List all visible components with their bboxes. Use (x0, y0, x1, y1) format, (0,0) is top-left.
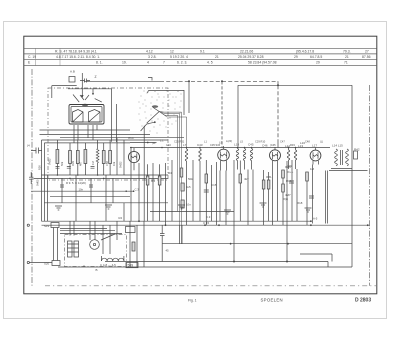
wires under coil box (40, 130, 185, 143)
wire vertical x=111.6 (111, 89, 113, 142)
boxed label 599 (126, 263, 138, 268)
wire y=202.8 (44, 202, 168, 204)
wire y=211.5 (150, 211, 234, 213)
svg-text:C.3: C.3 (206, 215, 211, 219)
svg-text:0M1: 0M1 (71, 160, 75, 166)
terminal at left rail y=262.5 (27, 261, 29, 263)
svg-text:R50: R50 (38, 165, 42, 170)
wire y=196.5 (50, 196, 130, 198)
svg-text:58 23.84 (94.57.08: 58 23.84 (94.57.08 (248, 61, 277, 65)
ground left 1 (55, 206, 62, 210)
svg-text:C43: C43 (197, 143, 203, 147)
left rail (41, 140, 43, 221)
svg-text:9.1: 9.1 (200, 49, 205, 53)
arched inductor L4-5 (102, 258, 124, 261)
svg-text:(C45: (C45 (270, 143, 276, 147)
capacitor C62 (60, 185, 64, 187)
svg-text:C45: C45 (248, 143, 254, 147)
svg-text:R33: R33 (290, 143, 295, 147)
svg-text:0M4: 0M4 (285, 165, 291, 169)
svg-text:29: 29 (316, 61, 320, 65)
svg-text:12: 12 (170, 49, 174, 53)
svg-text:1.1: 1.1 (160, 139, 164, 143)
svg-text:C 4-8 — 4-5: C 4-8 — 4-5 (100, 263, 116, 267)
coil box L1/L2 (shielded, double border) (69, 105, 104, 125)
svg-text:45: 45 (166, 249, 170, 253)
terminal I at top (148, 78, 152, 81)
wire: tuning stem with arrow (81, 73, 83, 97)
wire x=278 down to V3 (277, 81, 279, 140)
svg-text:64.7.8.5: 64.7.8.5 (310, 55, 322, 59)
capacitor C64 (160, 234, 165, 236)
wires into coil unit (60, 221, 122, 254)
short inner line y=254 (300, 254, 332, 262)
resistor R11 (282, 170, 285, 178)
svg-text:0M05: 0M05 (36, 179, 40, 186)
junction on AVC bus (188, 80, 190, 82)
switch arm S1 (73, 95, 102, 103)
bus y=225.2 (42, 224, 370, 226)
svg-text:7: 7 (163, 61, 165, 65)
wire: dashed AVC bus y=81.3 (84, 80, 160, 82)
svg-text:27: 27 (365, 49, 369, 53)
resistor R50 (56, 150, 59, 164)
capacitor C18 (309, 196, 314, 198)
frame aerial fan wires (147, 108, 159, 124)
IF transformer L14/L15 (335, 149, 338, 166)
bus y=221.2 (42, 220, 311, 222)
svg-text:L16: L16 (300, 141, 305, 145)
svg-text:L12: L12 (285, 144, 290, 148)
tube V3 (270, 150, 281, 161)
bus y=175 (42, 174, 169, 176)
grid line y=147.5 (130, 147, 330, 149)
svg-text:Z: Z (95, 75, 97, 79)
capacitor C17 (289, 181, 294, 183)
parts table line 3 (24, 58, 377, 60)
antenna input box (69, 77, 75, 83)
svg-text:(11: (11 (152, 141, 156, 145)
stubs for component row (57, 138, 124, 175)
coil L12 (287, 148, 290, 170)
svg-text:C48: C48 (305, 140, 310, 144)
vertical value labels left column (38, 158, 123, 170)
svg-text:21: 21 (215, 55, 219, 59)
svg-text:8. 1.: 8. 1. (96, 61, 103, 65)
svg-text:L7: L7 (183, 143, 187, 147)
wire from fan to C14 (130, 122, 157, 221)
resistor R13 (306, 172, 309, 181)
coil L9 (236, 148, 239, 170)
frame aerial wiper oval (152, 105, 158, 108)
dash-dot line far right (369, 85, 371, 286)
svg-text:29: 29 (294, 55, 298, 59)
wire to S20 (29, 262, 52, 264)
svg-text:19.: 19. (122, 61, 127, 65)
left edge capacitor (29, 172, 44, 184)
winding window L1 (73, 110, 84, 123)
svg-text:S20: S20 (44, 262, 50, 266)
small caps under resistors (56, 167, 95, 169)
dashed feed x=222 to V2 (221, 81, 223, 147)
svg-text:5 19 2 20. 4: 5 19 2 20. 4 (170, 55, 188, 59)
capacitor C52 (181, 183, 184, 191)
resistor R1 (69, 151, 72, 164)
svg-text:87.56: 87.56 (362, 55, 371, 59)
dash-dot boundary left (31, 69, 33, 286)
wire vertical x=116.5 (116, 104, 118, 142)
box right edge (351, 85, 353, 267)
svg-text:A.B: A.B (70, 70, 75, 74)
labels middle (151, 165, 315, 225)
svg-text:4.12: 4.12 (146, 49, 153, 53)
coil box apex wires (80, 95, 89, 100)
svg-text:A: A (83, 264, 85, 268)
halftone dots of antenna coil region (138, 90, 181, 133)
svg-text:SPOELEN: SPOELEN (261, 297, 283, 302)
resistor R10b (267, 180, 270, 189)
svg-text:50k: 50k (60, 161, 64, 166)
svg-text:25.04 29.37 8.28: 25.04 29.37 8.28 (238, 55, 264, 59)
svg-text:L10: L10 (234, 143, 239, 147)
selector box on buses (126, 227, 136, 233)
wire y=191.2 (31, 190, 134, 192)
resistor R8 (205, 174, 208, 183)
svg-text:S19: S19 (44, 224, 50, 228)
chassis dash-dot line (45, 285, 376, 287)
coil L8 (199, 148, 202, 171)
svg-text:L14 L15: L14 L15 (332, 144, 343, 148)
svg-text:4. 5: 4. 5 (207, 61, 213, 65)
svg-text:L17: L17 (312, 144, 317, 148)
parts table line 2 (24, 53, 377, 55)
svg-text:C14: C14 (128, 136, 134, 140)
capacitor C59 (76, 151, 79, 164)
wire x=238 top stub (237, 85, 239, 147)
capacitor C53 (181, 200, 184, 208)
coil L13 (294, 148, 297, 170)
motor-like switch disc (90, 240, 100, 250)
svg-text:4.8.7.17 15.6. 2.11. 8.4 30.: 4.8.7.17 15.6. 2.11. 8.4 30. 1. (56, 55, 100, 59)
tube V2 (218, 149, 230, 161)
junction dots on grid line (130, 147, 296, 149)
svg-text:R(L): R(L) (283, 197, 288, 201)
resistor R12 (282, 184, 285, 192)
resistor R18b (132, 242, 135, 251)
svg-text:C58: C58 (105, 161, 109, 166)
svg-text:50k: 50k (188, 177, 193, 181)
resistor R7 (180, 168, 183, 177)
svg-text:R4: R4 (119, 216, 123, 220)
svg-text:4: 4 (147, 61, 149, 65)
svg-text:L(20): L(20) (226, 139, 232, 143)
svg-text:4M7: 4M7 (285, 193, 291, 197)
svg-text:71: 71 (344, 61, 348, 65)
wire x=131 (130, 148, 132, 222)
svg-text:21: 21 (345, 55, 349, 59)
svg-text:C46: C46 (262, 144, 268, 148)
svg-text:(4: (4 (27, 144, 30, 148)
svg-text:0M1: 0M1 (266, 175, 272, 179)
right feed wires of coil unit (130, 221, 144, 267)
antenna series capacitor C1 (80, 79, 90, 83)
wire corner x=51.8 (51, 86, 53, 98)
fan terminal dot (154, 121, 156, 123)
svg-text:A-5: A-5 (313, 217, 318, 221)
wire y=243.7 (162, 243, 352, 245)
junction dots bottom (233, 261, 235, 263)
switch arm in coil unit (101, 234, 115, 240)
resistor R10 (262, 180, 265, 189)
wire y=85.6 left stub (52, 85, 77, 87)
resistor R42 (354, 151, 358, 159)
svg-text:0M22: 0M22 (119, 161, 123, 168)
svg-text:22.21.06: 22.21.06 (240, 49, 253, 53)
labels above chain (183, 141, 360, 152)
svg-text:L9: L9 (219, 141, 223, 145)
svg-text:4k7: 4k7 (79, 161, 83, 166)
terminal at left rail y=225 (27, 224, 29, 226)
dash-dot shield box around front-end (48, 88, 168, 180)
svg-text:Fig. 1: Fig. 1 (188, 298, 197, 302)
bus y=178.4 (44, 177, 168, 179)
svg-text:10k: 10k (112, 161, 116, 166)
svg-text:(95.4.6.17.8: (95.4.6.17.8 (296, 49, 314, 53)
parts table column separators (35, 48, 37, 65)
parts table row 1 text (55, 49, 369, 53)
drawing frame border (24, 36, 377, 294)
svg-text:R. S. 47 78.18. 84 9.30 (: R. S. 47 78.18. 84 9.30 (4.1 (55, 49, 97, 53)
parts table line 4 (24, 65, 377, 67)
svg-text:(L): (L) (320, 140, 323, 144)
svg-text:3 2.8.: 3 2.8. (148, 55, 157, 59)
resistor R9 (239, 174, 242, 183)
coil L10 (243, 148, 246, 170)
svg-text:R4: R4 (168, 171, 172, 175)
svg-text:B: B (96, 268, 98, 272)
wire x=189 from AVC bus down (188, 81, 190, 113)
svg-text:C.3: C.3 (135, 188, 140, 192)
capacitor C16 (204, 190, 209, 192)
parts table line 1 (24, 47, 377, 49)
box top edge (238, 84, 352, 86)
junction at 278,85 (277, 84, 279, 86)
vertical drop wires (138, 163, 140, 221)
coil L11 (250, 148, 253, 170)
trimmer C61 (109, 151, 112, 164)
inner bottom bus y=261.5 (105, 262, 328, 268)
coil L7 (185, 148, 188, 171)
junction dots on left buses (57, 174, 59, 176)
dash-dot shield box of coil unit (65, 235, 127, 267)
svg-text:6. 2. 3.: 6. 2. 3. (177, 61, 187, 65)
ground symbols (178, 205, 185, 209)
switch section S19 (51, 223, 59, 228)
aerial input trimmer (31, 148, 42, 154)
svg-text:79.3.: 79.3. (343, 49, 351, 53)
svg-text:C40: C40 (166, 143, 171, 147)
parts table row 2 text (28, 55, 371, 59)
resistor R6 (158, 176, 161, 185)
switch wiper oval (82, 104, 88, 107)
resistor R51 zigzag (96, 149, 99, 163)
parts table row 3 text (28, 61, 348, 65)
svg-text:D 2803: D 2803 (355, 298, 371, 304)
bus junction dots (138, 220, 140, 222)
svg-text:C. 19: C. 19 (28, 55, 36, 59)
switch section S20 (52, 261, 60, 266)
resistor R2 (84, 150, 87, 164)
transformer T1 in coil unit (68, 241, 73, 257)
extra small labels along chain (152, 139, 323, 202)
frame aerial top wire (148, 90, 184, 115)
capacitor C60 (102, 151, 105, 164)
capacitor C63 (89, 185, 93, 187)
svg-text:1M: 1M (91, 161, 95, 165)
svg-text:R.L.L: R.L.L (287, 170, 294, 174)
winding window L2 (89, 110, 101, 123)
svg-text:R18: R18 (297, 201, 303, 205)
tube V1 (128, 151, 139, 162)
wire y=88.8 to switch (68, 89, 112, 94)
left block lower verticals (48, 175, 125, 221)
outer bottom bus y=267 (58, 266, 352, 268)
tube V4 (310, 150, 321, 161)
resistor R5 (146, 176, 149, 185)
